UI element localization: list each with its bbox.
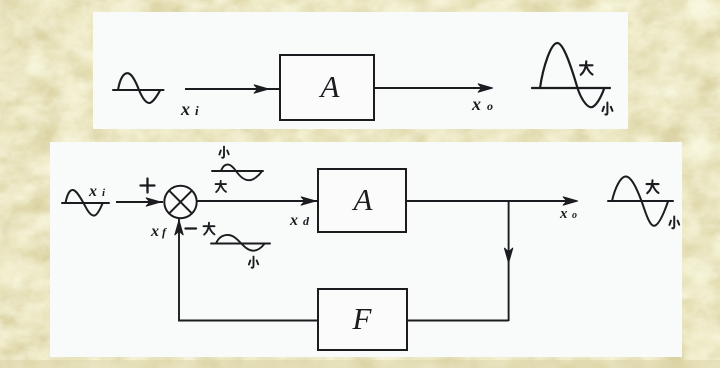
svg-text:o: o: [487, 99, 493, 113]
wire: xi into summing junction: [116, 198, 163, 206]
wire: branch down from output node: [505, 201, 513, 321]
bottom panel: [50, 142, 682, 357]
label XIAO (small) on bottom output waveform: [669, 217, 679, 229]
label XIAO (small) on top output waveform: [602, 103, 612, 115]
svg-text:F: F: [352, 301, 373, 336]
input waveform symbol (pure sine): [113, 73, 164, 103]
output waveform symbol (distorted: big positive, small negative): [532, 43, 610, 107]
minus sign at feedback input of summing junction: [186, 227, 197, 229]
node xi label (top): [180, 99, 199, 119]
svg-text:x: x: [289, 212, 298, 229]
node xo label (top): [471, 94, 493, 114]
svg-text:x: x: [88, 183, 97, 200]
label DA (big) on top output waveform: [580, 61, 593, 75]
svg-text:x: x: [150, 223, 159, 240]
label DA (big) next to minus sign: [204, 223, 215, 235]
node xo label (bottom): [559, 206, 577, 222]
wire: output of A to xo: [374, 84, 493, 92]
node xd label: [289, 212, 310, 229]
wire: input arrow into amplifier A: [185, 85, 279, 93]
summing junction (circle with X): [164, 186, 196, 218]
amplifier block A (closed loop): [318, 169, 406, 232]
svg-text:d: d: [303, 214, 310, 228]
input waveform symbol (pure sine, bottom): [62, 190, 109, 216]
xf feedback waveform symbol (big positive, small negative): [211, 235, 270, 251]
svg-text:A: A: [352, 182, 374, 217]
svg-text:x: x: [180, 99, 190, 119]
feedback block F: [318, 289, 407, 350]
xd pre-distorted waveform symbol (small positive, big negative): [212, 165, 263, 181]
label XIAO (small) above xd waveform: [219, 147, 228, 158]
svg-text:A: A: [319, 69, 341, 104]
amplifier block A (open loop): [280, 55, 374, 120]
svg-text:x: x: [471, 94, 481, 114]
wire: summing junction to amplifier A: [197, 197, 317, 205]
label XIAO (small) below xf waveform: [249, 257, 258, 268]
wire: A output to xo (bottom): [406, 197, 578, 205]
output waveform symbol (bottom, nearly undistorted): [608, 176, 673, 225]
wire: down branch into feedback block F: [407, 320, 509, 322]
label DA (big) on bottom output waveform: [647, 180, 659, 193]
svg-text:o: o: [572, 210, 577, 221]
wire: F output back to summing junction: [175, 219, 318, 322]
top panel: [93, 12, 628, 129]
label DA (big) below xd waveform: [216, 181, 227, 192]
svg-text:x: x: [559, 206, 568, 222]
plus sign at summing junction input: [141, 179, 155, 193]
node xi label (bottom): [88, 183, 106, 200]
node xf label: [150, 223, 167, 240]
svg-text:i: i: [195, 103, 199, 118]
